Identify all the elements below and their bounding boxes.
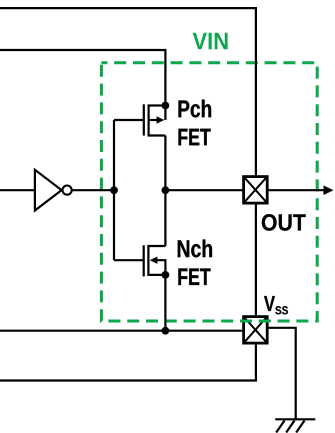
label Pch: [179, 100, 212, 118]
wire between OUT pad and VSS pad: [255, 204, 257, 317]
wire Nch gate lead: [114, 259, 144, 261]
wire Nch drain to output node: [164, 190, 166, 246]
transistor Q1 Pch FET: [144, 104, 166, 135]
pad OUT: [244, 177, 268, 204]
wire OUT pad to arrow: [268, 189, 325, 191]
wire input line: [0, 189, 35, 191]
label FET(P): [179, 129, 211, 146]
wire Pch gate lead: [114, 119, 144, 121]
label VIN: [193, 33, 228, 50]
inverter U1: [35, 170, 72, 211]
pad VSS: [244, 317, 268, 344]
wire VSS pad to ground: [268, 328, 296, 420]
wire gate bus vertical: [113, 120, 115, 260]
wire below VSS pad to left: [0, 344, 256, 381]
label SS: [275, 306, 288, 314]
arrow OUT: [324, 185, 334, 195]
wire output node to OUT pad: [165, 189, 243, 191]
label V: [264, 296, 275, 311]
node Nch source at VSS rail: [162, 327, 170, 335]
ground: [275, 419, 315, 432]
label OUT: [262, 214, 306, 231]
node output junction: [162, 186, 170, 194]
VIN boundary dashed box: [101, 63, 317, 321]
label FET(N): [178, 269, 210, 286]
wire Pch drain to output node: [164, 136, 166, 191]
wire inverter output to gate node: [73, 189, 114, 191]
wire top VIN rail: [0, 8, 256, 176]
wire VSS rail left: [0, 330, 243, 332]
node gate junction: [110, 186, 118, 194]
wire VIN branch to Pch source: [0, 50, 165, 106]
wire Nch source down: [164, 275, 166, 331]
label Nch: [178, 240, 212, 258]
transistor Q2 Nch FET: [144, 245, 166, 276]
